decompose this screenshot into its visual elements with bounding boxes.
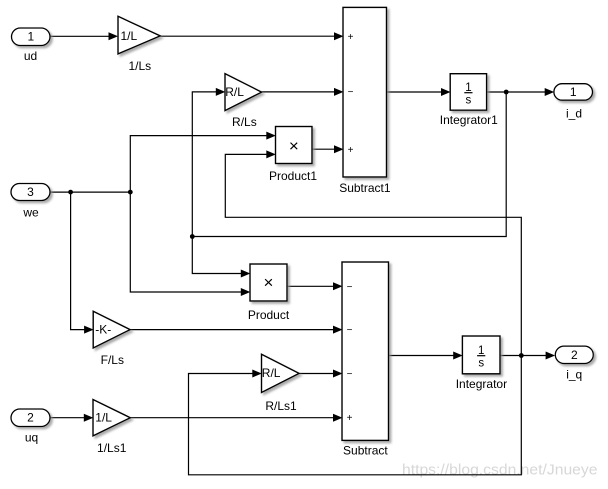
wire i_d vertical down to Product in1 — [192, 237, 250, 278]
svg-text:i_d: i_d — [566, 107, 582, 121]
wire gain 1/Ls1 to Subtract in4 — [130, 414, 342, 422]
wire gain F/Ls to Subtract in2 — [130, 326, 342, 334]
sum block Subtract1 — [339, 7, 391, 195]
wire we up to Product1 in1 — [130, 132, 275, 193]
svg-text:we: we — [22, 206, 39, 220]
wire gain R/Ls to Subtract1 in2 — [262, 88, 344, 96]
svg-text:+: + — [347, 413, 353, 424]
svg-text:1: 1 — [570, 85, 577, 99]
svg-text:Product1: Product1 — [269, 169, 317, 183]
wire i_q feedback up to Product1 in2 — [225, 150, 521, 355]
svg-text:−: − — [348, 87, 354, 98]
svg-text:Integrator: Integrator — [456, 377, 507, 391]
wire i_d feedback vertical to R/Ls and Product in1 — [192, 88, 506, 237]
svg-text:×: × — [264, 273, 274, 292]
product Product — [248, 264, 290, 322]
svg-text:ud: ud — [24, 49, 37, 63]
svg-text:−: − — [347, 325, 353, 336]
wire we down to Product in2 — [130, 192, 250, 296]
svg-text:s: s — [478, 358, 484, 370]
svg-text:R/L: R/L — [225, 85, 244, 99]
svg-text:+: + — [348, 145, 354, 156]
gain 1/Ls — [118, 16, 160, 73]
svg-text:2: 2 — [27, 411, 34, 425]
wire uq to gain 1/Ls1 — [50, 414, 93, 422]
integrator Integrator1 — [440, 74, 498, 127]
wire gain 1/Ls to Subtract1 in1 — [160, 32, 343, 40]
svg-text:−: − — [347, 369, 353, 380]
svg-text:s: s — [466, 95, 472, 107]
sum block Subtract — [342, 262, 389, 458]
input port 1 (ud) — [12, 28, 51, 63]
wire i_q feedback down to gain R/Ls1 — [189, 356, 522, 475]
gain R/Ls1 — [262, 354, 300, 413]
svg-text:R/Ls1: R/Ls1 — [265, 399, 297, 413]
wire Integrator1 to out i_d — [487, 88, 555, 96]
node junction we-1 — [68, 190, 73, 195]
wire Product1 to Subtract1 in3 — [312, 145, 344, 153]
svg-text:https://blog.csdn.net/Jnueye: https://blog.csdn.net/Jnueye — [402, 463, 598, 479]
svg-text:+: + — [348, 32, 354, 43]
wire Integrator to out i_q — [500, 352, 555, 360]
input port 3 (we) — [11, 184, 50, 220]
integrator Integrator — [456, 336, 507, 391]
input port 2 (uq) — [11, 409, 50, 445]
svg-text:Product: Product — [248, 308, 290, 322]
svg-text:−: − — [347, 282, 353, 293]
svg-text:1/Ls1: 1/Ls1 — [97, 441, 127, 455]
gain F/Ls — [93, 311, 130, 367]
svg-text:R/L: R/L — [262, 366, 281, 380]
svg-text:×: × — [289, 136, 299, 155]
wire ud to gain 1/Ls — [50, 32, 118, 40]
node junction i_d feedback — [190, 234, 195, 239]
svg-text:Subtract: Subtract — [343, 444, 388, 458]
output port 1 (i_d) — [554, 84, 593, 121]
svg-text:uq: uq — [25, 431, 38, 445]
wire we line — [50, 191, 130, 193]
svg-text:-K-: -K- — [95, 322, 111, 336]
svg-text:2: 2 — [571, 348, 578, 362]
node junction i_q out — [519, 353, 524, 358]
svg-text:1/Ls: 1/Ls — [128, 59, 151, 73]
svg-text:1/L: 1/L — [121, 29, 138, 43]
node junction i_d out — [504, 90, 509, 95]
wire Subtract1 to Integrator1 — [387, 88, 451, 96]
product Product1 — [269, 127, 317, 184]
svg-text:Integrator1: Integrator1 — [440, 113, 498, 127]
wire we to gain F/Ls — [71, 192, 94, 334]
svg-text:1: 1 — [27, 29, 34, 43]
svg-text:i_q: i_q — [566, 368, 582, 382]
wire Subtract to Integrator — [389, 352, 463, 360]
svg-text:F/Ls: F/Ls — [101, 353, 124, 367]
wire Product to Subtract in1 — [287, 282, 343, 290]
node junction we-2 — [128, 190, 133, 195]
svg-text:R/Ls: R/Ls — [232, 115, 257, 129]
output port 2 (i_q) — [555, 346, 593, 381]
gain R/Ls — [225, 74, 262, 129]
svg-text:3: 3 — [27, 185, 34, 199]
svg-text:Subtract1: Subtract1 — [339, 181, 391, 195]
wire gain R/Ls1 to Subtract in3 — [299, 370, 342, 378]
svg-text:1/L: 1/L — [95, 411, 112, 425]
gain 1/Ls1 — [93, 400, 130, 456]
